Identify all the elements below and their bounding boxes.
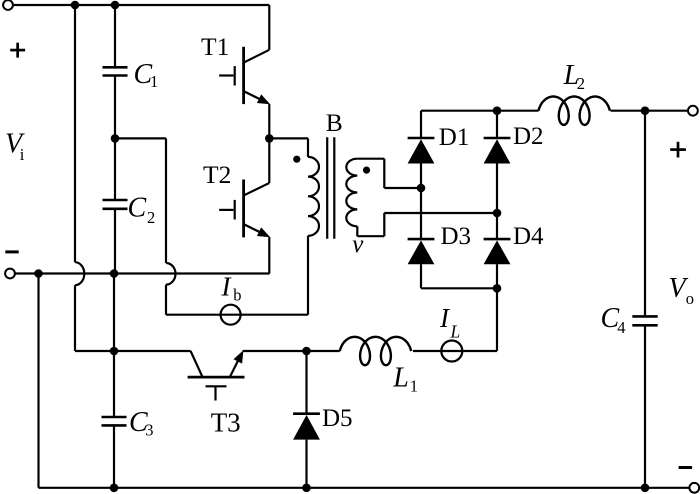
svg-text:b: b xyxy=(233,286,241,305)
svg-text:1: 1 xyxy=(150,72,158,91)
svg-text:D5: D5 xyxy=(322,405,353,432)
svg-text:D2: D2 xyxy=(513,123,544,150)
svg-text:D4: D4 xyxy=(513,223,544,250)
svg-text:v: v xyxy=(352,231,364,258)
svg-text:L: L xyxy=(392,363,409,394)
svg-text:D1: D1 xyxy=(439,124,470,151)
svg-text:T2: T2 xyxy=(203,160,231,189)
svg-text:3: 3 xyxy=(145,420,153,439)
svg-text:4: 4 xyxy=(617,318,625,337)
svg-text:T3: T3 xyxy=(211,408,241,438)
svg-text:2: 2 xyxy=(147,208,155,227)
svg-text:1: 1 xyxy=(410,377,418,396)
svg-text:C: C xyxy=(128,193,147,224)
svg-text:o: o xyxy=(686,289,694,308)
svg-text:D3: D3 xyxy=(441,223,472,250)
svg-text:T1: T1 xyxy=(201,32,229,61)
svg-text:L: L xyxy=(450,322,461,342)
svg-text:i: i xyxy=(20,145,25,164)
svg-text:2: 2 xyxy=(577,74,585,93)
svg-text:B: B xyxy=(326,108,343,137)
